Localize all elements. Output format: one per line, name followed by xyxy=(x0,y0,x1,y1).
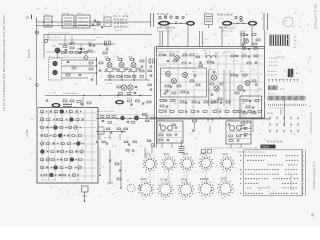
svg-text:o: o xyxy=(303,169,304,171)
legend mm marks xyxy=(268,110,282,116)
table row 7 xyxy=(240,183,304,186)
svg-text:o: o xyxy=(303,174,304,176)
top band extra parts xyxy=(196,53,202,67)
svg-text:8,2 · 1 · n2 4a: 8,2 · 1 · n2 4a xyxy=(114,15,130,18)
legend long barcode row 1 xyxy=(268,96,305,101)
svg-text:o: o xyxy=(303,193,304,195)
shielded coil dark oval T7 xyxy=(222,21,233,26)
svg-text:4n o u 1 2 o n u o 4 n: 4n o u 1 2 o n u o 4 n xyxy=(159,51,179,53)
box top band arcs coil xyxy=(203,50,216,63)
svg-text:n: n xyxy=(215,167,216,169)
box bottom double line xyxy=(150,117,270,119)
svg-text:a n o u: a n o u xyxy=(268,94,275,96)
wire down x100 xyxy=(99,148,100,176)
AF box row4 parts xyxy=(41,134,82,138)
values under FM group text xyxy=(157,27,176,32)
central extra specks xyxy=(196,71,258,104)
svg-text:≡: ≡ xyxy=(37,7,39,10)
wire stub pair right xyxy=(264,13,268,30)
box top text row xyxy=(159,51,233,53)
wire stub pair xyxy=(151,13,154,27)
row2 under labels xyxy=(143,191,236,201)
label left 2n xyxy=(29,170,32,172)
front end text row xyxy=(48,33,69,35)
left margin caption text xyxy=(2,14,6,111)
svg-text:1 o: 1 o xyxy=(74,125,77,127)
stamp circle mark xyxy=(283,17,293,27)
table row 9 xyxy=(240,193,304,196)
IF stage group 3 xyxy=(128,57,140,72)
tube socket V2 row1 xyxy=(161,154,176,171)
transistor Q1 dark xyxy=(52,45,60,58)
To To row xyxy=(267,141,283,144)
svg-text:Bestückungsplan Nr.4: Bestückungsplan Nr.4 xyxy=(312,161,316,189)
IF lower parts row xyxy=(108,72,143,80)
AF box row8 parts xyxy=(41,166,82,170)
terminal stack xyxy=(205,12,213,28)
components mid low xyxy=(115,160,122,189)
svg-text:m n o: m n o xyxy=(127,98,133,100)
svg-text:o u: o u xyxy=(45,14,48,16)
tube socket V5 row1 xyxy=(220,154,235,171)
svg-text:o: o xyxy=(303,160,304,162)
svg-text:n4: n4 xyxy=(223,172,225,174)
svg-text:EABC80: EABC80 xyxy=(200,178,210,181)
svg-text:1a 1b 2a 2b u n: 1a 1b 2a 2b u n xyxy=(63,93,79,95)
svg-text:o: o xyxy=(303,183,304,185)
svg-text:4u 6o n: 4u 6o n xyxy=(158,120,165,122)
right parts of IF rows xyxy=(140,57,146,80)
left margin specks near box xyxy=(31,119,33,155)
faint 4 3 2 1 row xyxy=(277,56,285,59)
svg-text:o: o xyxy=(235,167,236,169)
right margin top caption text xyxy=(314,4,318,29)
svg-text:,: , xyxy=(248,202,249,204)
shielded coil dark oval T5 xyxy=(158,21,170,26)
svg-text:4n o u 2 n o 1u 4: 4n o u 2 n o 1u 4 xyxy=(97,111,114,113)
svg-text:o n u: o n u xyxy=(175,35,179,37)
AF box vertical wires xyxy=(42,109,92,181)
switch bank side labels xyxy=(294,37,297,50)
node circle mid xyxy=(36,84,39,87)
AF box row3 parts xyxy=(41,126,82,130)
svg-text:o u n: o u n xyxy=(130,109,134,111)
svg-text:4 n o 2 u 1 n o 4 u: 4 n o 2 u 1 n o 4 u xyxy=(269,108,284,110)
svg-text:o: o xyxy=(303,165,304,167)
svg-text:o u n o u n o: o u n o u n o xyxy=(159,109,171,111)
svg-text:o n u: o n u xyxy=(241,31,245,33)
svg-text:4 n o: 4 n o xyxy=(280,89,285,91)
box bottom band extra xyxy=(160,111,261,118)
table row 3 xyxy=(268,165,304,167)
front end extra wires xyxy=(46,40,96,52)
legend approx row xyxy=(268,94,275,96)
svg-text:o: o xyxy=(302,82,304,84)
central box internal wires xyxy=(158,50,263,116)
central box outline xyxy=(157,47,265,119)
box top band parts right xyxy=(231,55,258,64)
table row 1 xyxy=(240,155,304,158)
connector T-rows grid row2 xyxy=(269,124,299,126)
svg-text:5fa0: 5fa0 xyxy=(105,57,110,59)
svg-text:4 u: 4 u xyxy=(209,91,212,93)
svg-text:4fa: 4fa xyxy=(117,57,121,59)
svg-text:n: n xyxy=(300,18,302,20)
svg-text:o u: o u xyxy=(49,56,52,58)
svg-text:n o u: n o u xyxy=(75,180,79,182)
wires down to tube row xyxy=(126,146,152,158)
wire down x110 xyxy=(107,150,113,183)
wire mid horizontal y44 xyxy=(58,43,115,44)
wire bus y95.5 xyxy=(45,93,152,96)
AM group labels above xyxy=(217,14,242,20)
connector T-rows grid row1 xyxy=(269,118,299,120)
svg-text:o u n o: o u n o xyxy=(240,116,246,118)
right top components cluster xyxy=(241,30,265,55)
svg-text:o u: o u xyxy=(55,187,58,189)
bandfilter box L3 xyxy=(76,13,90,28)
svg-text:2n: 2n xyxy=(29,170,32,172)
label 10 III xyxy=(26,15,32,20)
AF box tiny text rows xyxy=(40,117,82,176)
svg-text:Für HF-R und Blaupunkt-Ball, M: Für HF-R und Blaupunkt-Ball, MW-Lauf-Ada… xyxy=(2,14,6,111)
capacitor C8 group xyxy=(88,42,95,52)
svg-text:o 2 u: o 2 u xyxy=(219,18,223,20)
svg-text:n o u: n o u xyxy=(163,71,167,73)
svg-text:o: o xyxy=(176,140,178,142)
bandfilter box L2 xyxy=(62,13,74,29)
tube socket V10 row2 xyxy=(217,179,234,197)
AF box row1 parts xyxy=(41,110,82,114)
svg-text:4u: 4u xyxy=(103,15,105,17)
svg-text:o n: o n xyxy=(114,124,117,126)
svg-text:4u: 4u xyxy=(184,199,186,201)
right cluster output stage xyxy=(230,70,257,106)
rectifier group B xyxy=(226,120,251,149)
wire top chain main horizontal xyxy=(37,7,151,107)
coupling capacitor C4 xyxy=(93,20,101,30)
svg-text:. , .: . , . xyxy=(239,200,242,202)
svg-text:n2: n2 xyxy=(165,172,167,174)
wire chain second line xyxy=(37,25,101,27)
svg-text:o: o xyxy=(167,177,168,179)
svg-text:o: o xyxy=(156,167,157,169)
table row 4 xyxy=(240,169,304,172)
resistor R5 xyxy=(63,42,67,51)
svg-text:o n 4 u 1 o n 2 u o 4 n u: o n 4 u 1 o n 2 u o 4 n u xyxy=(48,33,69,35)
svg-text:2u 3o n 4: 2u 3o n 4 xyxy=(268,75,278,77)
right below-box connector rows xyxy=(238,118,253,141)
legend rows top xyxy=(269,58,278,67)
svg-text:4n 3k 5p0 1u: 4n 3k 5p0 1u xyxy=(114,18,128,21)
svg-text:4n u o: 4n u o xyxy=(210,69,216,71)
svg-text:u: u xyxy=(176,167,177,169)
svg-text:u o: u o xyxy=(243,53,247,55)
svg-text:1n 1k 1p5 on: 1n 1k 1p5 on xyxy=(114,22,128,25)
node circle A xyxy=(35,31,38,34)
svg-text:EF89: EF89 xyxy=(182,180,188,182)
svg-text:B4n040 u 2 o n: B4n040 u 2 o n xyxy=(219,27,235,29)
front end lower parts xyxy=(48,52,96,58)
svg-text:·1·: ·1· xyxy=(285,24,288,26)
power transformer group A xyxy=(157,120,183,149)
svg-text:o 4a u 5 o n 2u: o 4a u 5 o n 2u xyxy=(42,180,57,182)
IF stage group 1 xyxy=(104,57,116,72)
svg-text:u: u xyxy=(234,191,235,193)
svg-text:4 u o: 4 u o xyxy=(158,19,163,21)
inter-row tube specks xyxy=(148,168,227,184)
wire between ovals xyxy=(170,21,186,24)
transistor pair Q4 Q5 xyxy=(117,85,137,90)
svg-text:2u: 2u xyxy=(140,146,142,148)
svg-text:4o: 4o xyxy=(143,199,145,201)
svg-text:u o n o: u o n o xyxy=(160,65,167,67)
table outline xyxy=(244,150,306,196)
ratio detector parts xyxy=(163,71,200,94)
svg-text:an: an xyxy=(205,12,208,14)
AF box row8b parts xyxy=(41,173,79,177)
legend small dark block xyxy=(269,86,286,91)
wire AM ovals xyxy=(233,19,248,24)
table row 2 xyxy=(240,160,304,163)
group A extra parts xyxy=(159,124,182,138)
box lower band parts xyxy=(160,100,230,108)
svg-text:30 Rhg W 5 70 469: 30 Rhg W 5 70 469 xyxy=(314,4,318,29)
svg-text:B n: B n xyxy=(296,73,300,75)
svg-text:Sta-nd. 1 u o 4n: Sta-nd. 1 u o 4n xyxy=(157,30,173,33)
svg-text:4n: 4n xyxy=(294,37,297,39)
svg-text:o n u o: o n u o xyxy=(106,83,113,85)
mixer dashed box Q2 Q3 xyxy=(49,56,62,80)
AF box row6 parts xyxy=(41,150,84,154)
svg-text:n4 u: n4 u xyxy=(203,50,208,52)
speaker section row2 xyxy=(96,127,127,140)
central box left double edge extension xyxy=(155,47,157,148)
svg-text:u4: u4 xyxy=(183,172,185,174)
switch bank barcode block xyxy=(270,35,289,46)
right small note text xyxy=(300,18,302,28)
caption text under central area xyxy=(204,146,259,149)
AF box row9 labels xyxy=(42,180,79,182)
svg-text:4n o u: 4n o u xyxy=(40,117,45,119)
table row 5 xyxy=(240,174,304,177)
svg-text:ECH81: ECH81 xyxy=(161,180,169,182)
components right of T10 xyxy=(127,98,151,106)
svg-text:EF85: EF85 xyxy=(183,154,189,156)
svg-text:10: 10 xyxy=(26,16,30,20)
output sub box xyxy=(240,96,262,118)
tube socket V8 row2 xyxy=(178,180,195,198)
svg-text:o: o xyxy=(195,167,196,169)
svg-text:o 4: o 4 xyxy=(46,150,49,152)
components right of mixer xyxy=(89,62,103,80)
svg-text:S: S xyxy=(30,77,32,81)
vertical connectors from chain xyxy=(160,26,252,47)
svg-text:o: o xyxy=(31,153,33,155)
svg-text:u: u xyxy=(300,22,302,24)
svg-text:o u n 4 o u: o u n 4 o u xyxy=(222,51,233,53)
table row 6 xyxy=(240,178,304,181)
antenna coil box L1 xyxy=(43,14,52,27)
svg-text:.: . xyxy=(313,219,314,222)
front end hang wires xyxy=(48,35,107,49)
tube socket V7 row2 xyxy=(157,180,174,198)
svg-text:3n: 3n xyxy=(294,47,297,49)
svg-text:n o u 4: n o u 4 xyxy=(96,37,103,39)
svg-text:4 n u o 2 n: 4 n u o 2 n xyxy=(160,116,169,118)
shielded coil dark oval T8 xyxy=(248,21,258,26)
svg-text:o n u 2: o n u 2 xyxy=(115,30,122,32)
legend row of T marks xyxy=(268,80,304,84)
svg-text:o4: o4 xyxy=(145,172,147,174)
trimmer values text block xyxy=(114,15,130,32)
node circle B xyxy=(44,39,47,42)
svg-text:4|,: 4|, xyxy=(311,213,315,217)
svg-text:u n: u n xyxy=(42,134,45,136)
svg-text:EL84: EL84 xyxy=(221,179,227,181)
shielded coil dark oval T6 xyxy=(186,21,195,26)
svg-text:44: 44 xyxy=(222,198,224,200)
table row 8 xyxy=(247,188,304,190)
svg-text:u o n: u o n xyxy=(112,146,116,148)
AF box row5 parts xyxy=(41,142,84,146)
legend long barcode row 2 xyxy=(269,104,306,110)
vertical pointer line right legend xyxy=(284,100,286,126)
label left small S xyxy=(30,77,32,81)
svg-text:1n5 o: 1n5 o xyxy=(77,13,83,15)
svg-text:Gn: Gn xyxy=(285,21,289,23)
svg-text:o n u: o n u xyxy=(64,56,68,58)
svg-text:o u n: o u n xyxy=(63,98,67,100)
svg-text:o n o: o n o xyxy=(240,71,245,73)
group B extra parts xyxy=(228,124,250,139)
values under AM group text xyxy=(219,27,235,32)
tube socket V1 row1 xyxy=(143,155,158,172)
components under y95 bus left xyxy=(46,97,91,107)
svg-text:Tabelle: Tabelle xyxy=(262,147,270,149)
right column parts IF xyxy=(148,59,154,90)
AF box row2 parts xyxy=(41,118,84,122)
right margin small vline xyxy=(310,112,312,134)
svg-text:o: o xyxy=(155,192,156,194)
svg-text:1u: 1u xyxy=(294,44,297,46)
diode D1 xyxy=(77,47,85,52)
svg-text:1 u. 5%: 1 u. 5% xyxy=(26,129,29,138)
table header tiny row xyxy=(238,151,265,153)
chain small parts 93-112 xyxy=(92,23,103,32)
IF stage group 2 xyxy=(116,57,128,72)
svg-text:Spannungen gem.: Spannungen gem. xyxy=(291,173,293,190)
svg-text:To To To To To: To To To To To xyxy=(267,141,283,144)
shielded coil dark oval T9 xyxy=(52,103,61,108)
inner sub box ratio detector xyxy=(161,68,207,97)
svg-text:3xFa 5 u o2: 3xFa 5 u o2 xyxy=(221,31,233,33)
svg-text:o u 2n: o u 2n xyxy=(233,61,239,63)
svg-text:o u: o u xyxy=(196,53,199,55)
output connector under AF box xyxy=(55,186,88,202)
svg-text:o n: o n xyxy=(238,139,241,141)
svg-text:4 o: 4 o xyxy=(225,35,229,37)
svg-text:o u: o u xyxy=(190,116,193,118)
speaker section bus y118 xyxy=(96,109,154,119)
svg-text:EM80: EM80 xyxy=(141,179,148,181)
mid small parts xyxy=(190,120,213,136)
box bottom row parts xyxy=(159,109,237,113)
wire bus y80 xyxy=(104,79,150,85)
AF box top connector marks xyxy=(63,103,72,106)
svg-text:2o: 2o xyxy=(203,199,205,201)
tube socket V9 row2 xyxy=(198,178,215,197)
diamond test point xyxy=(84,55,89,60)
below table specks xyxy=(239,200,249,205)
svg-text:2n: 2n xyxy=(163,199,165,201)
svg-text:EL84: EL84 xyxy=(223,154,229,156)
resistor R7 pair vertical xyxy=(103,41,110,54)
vertical wire x96 xyxy=(96,57,97,85)
resistors R12 R13 xyxy=(119,93,137,96)
svg-text:o n: o n xyxy=(42,166,45,168)
svg-text:Pt o 8 o nP: Pt o 8 o nP xyxy=(157,13,169,16)
scan noise speckle xyxy=(34,5,311,197)
svg-text:n: n xyxy=(196,192,197,194)
svg-text:n o: n o xyxy=(205,39,209,41)
connector area specks xyxy=(175,35,250,41)
svg-text:o: o xyxy=(303,188,304,190)
tube socket V3 row1 xyxy=(180,154,195,171)
svg-text:VCA 4P: VCA 4P xyxy=(28,49,31,58)
svg-text:2x4n7 30p 1k0 5n: 2x4n7 30p 1k0 5n xyxy=(157,27,176,29)
svg-text:u n: u n xyxy=(95,30,98,32)
svg-text:n o: n o xyxy=(229,133,232,135)
svg-text:n u: n u xyxy=(190,133,193,135)
AF amplifier box outline xyxy=(37,108,98,184)
svg-text:u: u xyxy=(251,71,252,73)
AF box horizontal wires xyxy=(39,113,96,176)
table inner rotated label xyxy=(291,173,293,190)
svg-text:4u: 4u xyxy=(31,119,33,121)
resistor R6 xyxy=(70,40,74,49)
right margin table side label xyxy=(312,161,316,189)
svg-text:4o 1n o u: 4o 1n o u xyxy=(268,71,278,73)
wires from mixer box xyxy=(62,60,97,78)
tube socket V4 row1 xyxy=(199,150,214,171)
box top band parts left xyxy=(159,54,194,67)
svg-text:o 4n u 1 o n 2 u: o 4n u 1 o n 2 u xyxy=(47,37,61,39)
FM group small circles xyxy=(157,13,184,20)
svg-text:4 3 2 1: 4 3 2 1 xyxy=(277,56,285,59)
svg-text:u o n: u o n xyxy=(215,109,219,111)
legend mid rows with dark block xyxy=(268,69,301,77)
mid cluster driver xyxy=(209,69,225,106)
connector T-rows grid row3 xyxy=(269,131,299,133)
svg-text:4fa0: 4fa0 xyxy=(129,57,134,59)
svg-text:Gedruckte Schaltung · Ansicht: Gedruckte Schaltung · Ansicht von der Le… xyxy=(204,146,259,149)
svg-text:o 4n u: o 4n u xyxy=(227,120,233,122)
svg-text:o u: o u xyxy=(242,103,245,105)
wire bus left mid top xyxy=(44,35,152,59)
svg-text:EC92: EC92 xyxy=(146,155,152,157)
table header dark label xyxy=(261,145,276,149)
svg-text:n: n xyxy=(148,177,149,179)
page number 4 xyxy=(311,213,315,222)
speaker section parts row xyxy=(101,114,149,127)
svg-text:4 u: 4 u xyxy=(78,174,81,176)
small trimmer circle xyxy=(127,180,142,192)
svg-text:o: o xyxy=(303,156,304,158)
svg-text:m m: m m xyxy=(268,111,274,115)
svg-text:n o u: n o u xyxy=(174,103,178,105)
svg-text:o: o xyxy=(216,192,217,194)
